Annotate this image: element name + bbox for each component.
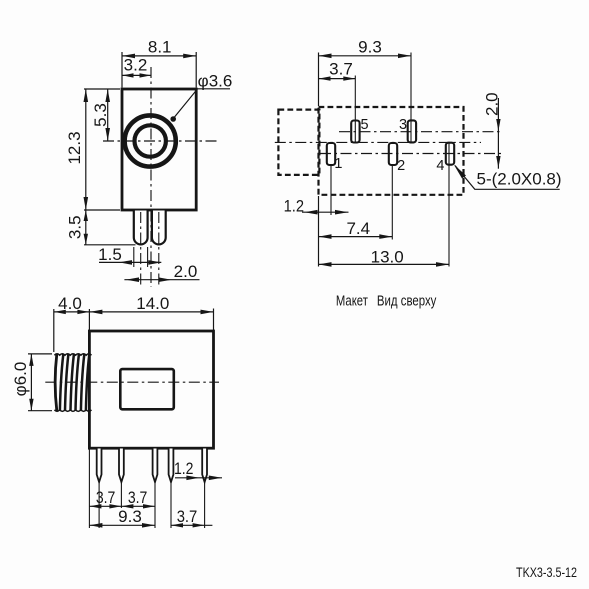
svg-text:3.5: 3.5 bbox=[65, 215, 84, 239]
top view pin 2 bbox=[389, 143, 397, 165]
ext phi6 top bbox=[28, 353, 52, 355]
dim 5.3 line bbox=[107, 89, 109, 141]
ext line pin5 bbox=[354, 76, 356, 143]
ext side pin3 bbox=[154, 482, 156, 528]
side view pin 2 bbox=[119, 449, 124, 483]
svg-text:7.4: 7.4 bbox=[346, 219, 370, 238]
top view pin 4 bbox=[446, 143, 454, 165]
dim 1.5 tick pinA left edge bbox=[133, 247, 135, 267]
svg-text:8.1: 8.1 bbox=[148, 37, 172, 56]
side view pin 4 bbox=[169, 449, 174, 483]
top view main centerline bbox=[275, 141, 481, 143]
svg-text:3: 3 bbox=[399, 117, 407, 133]
barrel top scalloped edge bbox=[54, 354, 91, 355]
barrel left end edge bbox=[55, 354, 57, 411]
svg-text:2.0: 2.0 bbox=[174, 262, 198, 281]
svg-text:5-(2.0X0.8): 5-(2.0X0.8) bbox=[477, 169, 562, 188]
front view vertical centerline bbox=[150, 67, 152, 287]
top view pin 3 bbox=[408, 120, 416, 142]
dim 3.5 line bbox=[85, 210, 87, 245]
front view inner hole circle bbox=[135, 125, 166, 156]
top view lower pin centerline bbox=[320, 153, 502, 155]
dim 13.0 bbox=[319, 263, 450, 265]
side view body outline bbox=[89, 331, 213, 448]
leader dot on hole edge bbox=[170, 116, 176, 122]
svg-text:12.3: 12.3 bbox=[65, 131, 84, 164]
right pin centerline bbox=[158, 212, 160, 285]
svg-text:Макет: Макет bbox=[336, 294, 368, 310]
top view body dashed outline bbox=[319, 107, 464, 195]
ext line pin4 down bbox=[448, 143, 450, 267]
svg-text:3.7: 3.7 bbox=[128, 488, 148, 507]
svg-text:5.3: 5.3 bbox=[91, 103, 110, 127]
svg-text:3.2: 3.2 bbox=[124, 56, 148, 75]
top view pin 5 bbox=[351, 121, 359, 143]
svg-text:5: 5 bbox=[360, 117, 368, 133]
svg-text:φ6.0: φ6.0 bbox=[11, 362, 30, 397]
ext line pin2 down bbox=[391, 165, 393, 240]
svg-text:3.7: 3.7 bbox=[177, 507, 198, 526]
front view horizontal centerline bbox=[103, 140, 218, 142]
front view left pin bbox=[134, 211, 148, 245]
ext side pin1 bbox=[98, 482, 100, 528]
dim 12.3 line bbox=[85, 89, 87, 210]
svg-text:3.7: 3.7 bbox=[96, 488, 116, 507]
svg-text:1: 1 bbox=[334, 156, 342, 172]
front view right pin bbox=[152, 211, 166, 245]
dim phi6 line bbox=[30, 354, 32, 411]
ext line pin3 bbox=[410, 53, 412, 143]
dim 2.0 line bbox=[124, 279, 199, 281]
dim 4.0 bbox=[54, 311, 90, 313]
ext line body left bottom bbox=[318, 196, 320, 267]
dim 3.7 3.7 row bbox=[89, 505, 155, 507]
leader line 5-(2.0X0.8) bbox=[455, 166, 560, 190]
svg-text:4.0: 4.0 bbox=[58, 294, 82, 313]
dim 2.0 vertical line bbox=[497, 98, 499, 169]
side view pin 5 bbox=[202, 449, 207, 483]
svg-text:TKX3-3.5-12: TKX3-3.5-12 bbox=[516, 564, 577, 580]
side view centerline bbox=[45, 381, 219, 383]
ext body right top bbox=[213, 309, 215, 331]
ext line body left top bbox=[318, 53, 320, 107]
ext body left bottom bbox=[88, 450, 90, 529]
dim 8.1 bbox=[122, 55, 196, 57]
ext barrel left bbox=[53, 309, 55, 352]
dim 14.0 bbox=[89, 311, 213, 313]
dim 2.0 upper arrow bbox=[496, 119, 500, 131]
dim 2.0 lower arrow bbox=[496, 156, 500, 168]
top view barrel dashed outline bbox=[278, 110, 319, 175]
svg-text:14.0: 14.0 bbox=[136, 294, 169, 313]
dim 1.5 tick pinA right edge bbox=[147, 247, 149, 267]
dim 3.2 bbox=[122, 74, 151, 76]
front view outer barrel circle bbox=[125, 115, 176, 166]
svg-text:9.3: 9.3 bbox=[358, 37, 382, 56]
dim 1.2 side line bbox=[175, 477, 222, 479]
top view upper pin centerline bbox=[339, 131, 502, 133]
barrel bottom scalloped edge bbox=[54, 410, 91, 411]
ext line pin1 down bbox=[330, 165, 332, 216]
ext body left top bbox=[88, 309, 90, 330]
svg-text:2: 2 bbox=[397, 158, 405, 174]
top view pin 1 bbox=[327, 143, 335, 165]
dim 8.1 left extension line bbox=[121, 52, 123, 88]
dim 12.3 bottom extension bbox=[84, 209, 120, 211]
svg-text:4: 4 bbox=[436, 158, 444, 174]
ext side pin2 bbox=[120, 482, 122, 508]
svg-text:13.0: 13.0 bbox=[371, 247, 404, 266]
dim 12.3 top extension bbox=[84, 88, 120, 90]
leader line phi3.6 bbox=[174, 89, 230, 118]
threaded barrel threads bbox=[60, 354, 63, 411]
ext phi6 bottom bbox=[28, 410, 52, 412]
ext side pin5 bbox=[204, 482, 206, 528]
dim 9.3 side bbox=[89, 524, 155, 526]
dim 3.7 side right bbox=[171, 524, 212, 526]
front view body outline bbox=[122, 89, 196, 210]
dim 3.5 bottom extension bbox=[84, 244, 136, 246]
dim 9.3 top bbox=[319, 55, 412, 57]
svg-text:1.2: 1.2 bbox=[174, 459, 194, 478]
svg-text:9.3: 9.3 bbox=[118, 507, 142, 526]
side view pin 1 bbox=[97, 449, 102, 483]
svg-text:3.7: 3.7 bbox=[329, 60, 353, 79]
dim 3.7 top bbox=[319, 78, 356, 80]
svg-text:1.5: 1.5 bbox=[98, 245, 122, 264]
left pin centerline bbox=[140, 212, 142, 285]
dim 1.2 top view bbox=[302, 211, 349, 213]
dim 1.5 line bbox=[99, 261, 161, 263]
svg-text:φ3.6: φ3.6 bbox=[198, 71, 233, 90]
dim 8.1 right extension line bbox=[195, 52, 197, 88]
dim 7.4 bbox=[319, 236, 393, 238]
svg-text:2.0: 2.0 bbox=[482, 92, 501, 116]
svg-text:Вид сверху: Вид сверху bbox=[377, 294, 437, 310]
side view window bbox=[120, 369, 174, 409]
side view pin 3 bbox=[153, 449, 158, 483]
svg-text:1.2: 1.2 bbox=[284, 196, 304, 215]
ext side pin4 bbox=[170, 482, 172, 528]
leader arrow on pin4 bbox=[454, 165, 466, 179]
